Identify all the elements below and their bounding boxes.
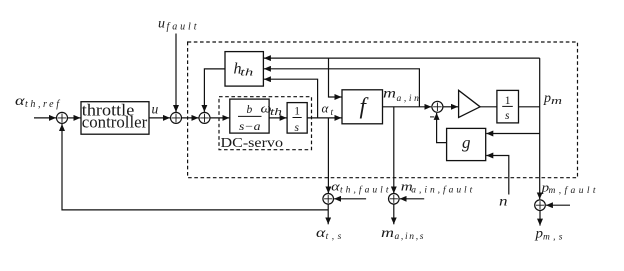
wire: alpha_t branch up to h_th	[264, 79, 318, 118]
svg-text:th: th	[270, 107, 282, 118]
wire: m_a,in,fault into S6	[400, 198, 425, 200]
svg-text:b: b	[247, 104, 253, 116]
summing junction S1	[57, 112, 68, 123]
wire: S3 to b/(s-a)	[210, 117, 229, 119]
block label: b/(s-a) fraction	[239, 104, 261, 133]
wire: p_m,fault into S7	[546, 204, 570, 206]
wire: alpha_t branch down to fault sum S5	[327, 118, 329, 193]
wire: u_fault down into S2	[175, 34, 177, 113]
svg-text:a,in,fault: a,in,fault	[411, 185, 472, 196]
block: throttle controller	[81, 102, 149, 135]
svg-text:u: u	[158, 17, 165, 32]
wire: p_m feedback to h_th (top line)	[264, 57, 540, 59]
node alpha_th,fault label	[331, 178, 389, 195]
wire: 1/s to f (alpha_t line)	[307, 117, 341, 119]
svg-text:n: n	[499, 194, 508, 209]
svg-text:p: p	[534, 225, 543, 240]
label DC-servo	[221, 136, 284, 151]
svg-text:α: α	[322, 101, 330, 116]
svg-text:DC-servo: DC-servo	[221, 136, 284, 151]
wire: p_m branch down into f	[329, 58, 342, 97]
block: g	[447, 128, 486, 160]
block label: 1/s servo fraction	[294, 106, 300, 135]
svg-text:controller: controller	[82, 113, 148, 132]
block label: g	[462, 133, 471, 152]
node omega_th label	[261, 101, 283, 119]
svg-text:fault: fault	[167, 22, 197, 33]
dashed box: DC-servo	[219, 97, 312, 150]
svg-text:1: 1	[294, 106, 300, 118]
block label: f	[360, 94, 370, 119]
svg-text:s: s	[295, 122, 300, 134]
wire: n up and into g (bottom input)	[486, 156, 509, 195]
block: f	[342, 90, 383, 124]
node p_m label	[543, 91, 563, 107]
node m_a,in label	[383, 86, 419, 104]
svg-text:α: α	[15, 94, 25, 109]
wire: S7 output arrow p_m,s	[539, 211, 541, 226]
svg-text:t,s: t,s	[326, 232, 342, 242]
wire: controller to S2 (signal u)	[149, 117, 170, 119]
svg-text:m: m	[383, 86, 396, 101]
node alpha_t,s label	[316, 225, 342, 242]
wire: amplifier to 1/s integrator	[480, 106, 497, 108]
block label: throttle controller	[82, 100, 148, 131]
wire: feedback alpha_t,s up into S1	[62, 124, 328, 210]
wire: 1/s to p_m node	[519, 106, 540, 108]
svg-text:u: u	[152, 102, 159, 117]
svg-text:m: m	[381, 225, 394, 240]
svg-text:t: t	[331, 108, 334, 118]
wire: m_a,in branch down to fault sum S6	[393, 107, 395, 194]
wire: S6 output arrow m_a,in,s	[393, 204, 395, 224]
block label: h_th	[234, 60, 254, 78]
block: 1/s integrator	[497, 90, 519, 123]
node u_fault label	[158, 17, 197, 33]
svg-text:m,fault: m,fault	[549, 185, 596, 196]
summing junction S7 (p_m fault)	[535, 200, 546, 211]
summing junction S2	[171, 112, 182, 123]
node alpha_t label	[322, 101, 334, 119]
wire: alpha_th,ref input into S1	[34, 117, 56, 119]
wire: g output into S4 (minus)	[437, 113, 447, 143]
svg-text:a,in: a,in	[397, 94, 420, 104]
svg-text:1: 1	[505, 95, 511, 107]
wire: f to S4 (m_a,in line)	[383, 106, 432, 108]
amplifier triangle	[459, 90, 481, 117]
wire: alpha_th,fault into S5	[334, 198, 366, 200]
summing junction S3	[199, 112, 210, 123]
svg-text:a,in,s: a,in,s	[395, 232, 424, 242]
svg-text:th: th	[240, 68, 253, 79]
block label: 1/s integrator fraction	[505, 95, 511, 122]
block: b/(s-a)	[230, 99, 269, 133]
node p_m,fault label	[540, 180, 595, 197]
summing junction S4	[432, 101, 443, 112]
svg-text:th,fault: th,fault	[340, 184, 389, 195]
block: 1/s servo integrator	[287, 103, 307, 134]
svg-text:s: s	[505, 110, 510, 122]
svg-text:p: p	[543, 91, 551, 106]
minus sign at S4	[430, 116, 434, 118]
svg-text:g: g	[462, 133, 471, 152]
wire: p_m vertical down to fault sum S7	[539, 58, 541, 199]
node alpha_th,ref label	[15, 94, 60, 110]
wire: S1 to throttle controller	[68, 117, 81, 119]
node n label	[499, 194, 508, 209]
svg-text:f: f	[360, 94, 370, 119]
svg-text:m: m	[551, 96, 563, 107]
svg-text:s−a: s−a	[239, 121, 261, 133]
wire: S5 output arrow alpha_t,s	[327, 204, 329, 224]
wire: h_th output down into S3	[204, 69, 225, 112]
summing junction S6 (m_a,in fault)	[389, 194, 400, 205]
wire: S2 to S3	[182, 117, 199, 119]
node p_m,s label	[534, 225, 562, 242]
svg-text:th,ref: th,ref	[25, 99, 60, 110]
block: h_th	[225, 52, 263, 87]
wire: S4 to amplifier	[443, 106, 458, 108]
node m_a,in,s label	[381, 225, 424, 242]
dashed box: engine system boundary	[188, 42, 578, 178]
svg-text:m,s: m,s	[543, 232, 563, 242]
node m_a,in,fault label	[401, 179, 473, 196]
node u label	[152, 102, 159, 117]
wire: p_m to g (top input)	[486, 133, 539, 135]
summing junction S5 (alpha_th fault)	[323, 194, 334, 205]
wire: m_a,in branch up to h_th (middle line)	[264, 69, 420, 107]
wire: b/(s-a) to 1/s servo	[269, 117, 287, 119]
